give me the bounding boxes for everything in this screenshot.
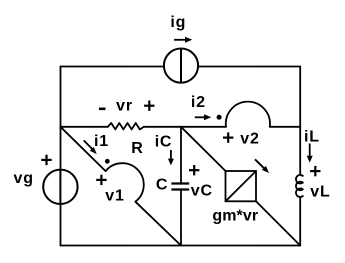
wire diagonal 2 lower segment (dependent source to corner): [256, 201, 300, 245]
svg-text:vr: vr: [116, 97, 133, 114]
voltage source vg (circle with vertical bar): [43, 170, 77, 204]
wire diagonal upper segment (node to v1 bump): [61, 127, 106, 171]
wire middle vertical lower segment (capacitor to bottom): [180, 190, 182, 246]
svg-text:C: C: [156, 177, 168, 194]
arrow iC (points down): [168, 150, 174, 165]
arrow iL (points down): [307, 144, 313, 163]
arrow ig (points right): [174, 37, 192, 43]
svg-text:R: R: [131, 140, 143, 157]
wire left side: [60, 67, 62, 246]
plus sign for v1: [96, 175, 106, 185]
plus sign for vr: [144, 101, 154, 111]
node dot for i2: [217, 115, 222, 120]
plus sign for v2: [223, 132, 233, 142]
svg-text:i1: i1: [94, 133, 109, 150]
wire diagonal lower segment (v1 bump to bottom node): [135, 202, 181, 246]
arrow i2 (points right): [195, 114, 212, 120]
svg-text:v1: v1: [105, 187, 124, 204]
dependent source gm*vr (square with diagonal): [226, 171, 257, 201]
node dot for i1: [105, 159, 110, 164]
wire right side with inductor coil: [296, 67, 303, 246]
svg-text:gm*vr: gm*vr: [212, 207, 258, 224]
current source ig (circle with vertical bar): [164, 49, 198, 83]
v1 measurement bump (semicircular hop on diagonal): [106, 163, 144, 202]
svg-text:iL: iL: [304, 128, 320, 145]
wire middle horizontal between resistor and v2 bump: [144, 126, 226, 128]
svg-text:vL: vL: [310, 184, 330, 201]
arrow i1 (points down-right): [84, 140, 97, 154]
v2 measurement bump (semicircular hop): [226, 102, 270, 127]
svg-text:i2: i2: [191, 94, 206, 111]
svg-text:ig: ig: [170, 14, 186, 31]
wire middle horizontal right segment: [270, 126, 300, 128]
minus sign for vr: [99, 108, 106, 111]
plus sign for vL: [310, 166, 320, 176]
svg-text:vC: vC: [191, 182, 213, 199]
svg-text:iC: iC: [155, 133, 173, 150]
wire middle vertical upper segment (to capacitor): [180, 127, 182, 184]
capacitor C plates: [171, 184, 189, 190]
arrow gm*vr source (points down-right): [255, 159, 269, 173]
wire top side: [61, 66, 301, 68]
resistor R zigzag: [108, 123, 144, 129]
wire bottom side: [61, 245, 301, 247]
wire middle horizontal left segment: [61, 126, 108, 128]
wire diagonal 2 upper segment (node to dependent source): [181, 127, 226, 171]
plus sign for vC: [189, 165, 199, 175]
svg-text:v2: v2: [240, 130, 259, 147]
svg-text:vg: vg: [14, 170, 34, 187]
plus sign for vg: [41, 155, 51, 165]
